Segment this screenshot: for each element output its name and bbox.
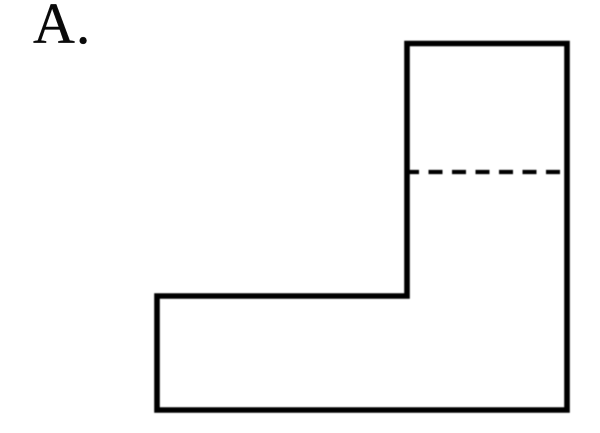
dashed hidden line: [405, 170, 564, 174]
L-shaped solid outline: [157, 44, 567, 411]
label A.: [33, 0, 91, 57]
